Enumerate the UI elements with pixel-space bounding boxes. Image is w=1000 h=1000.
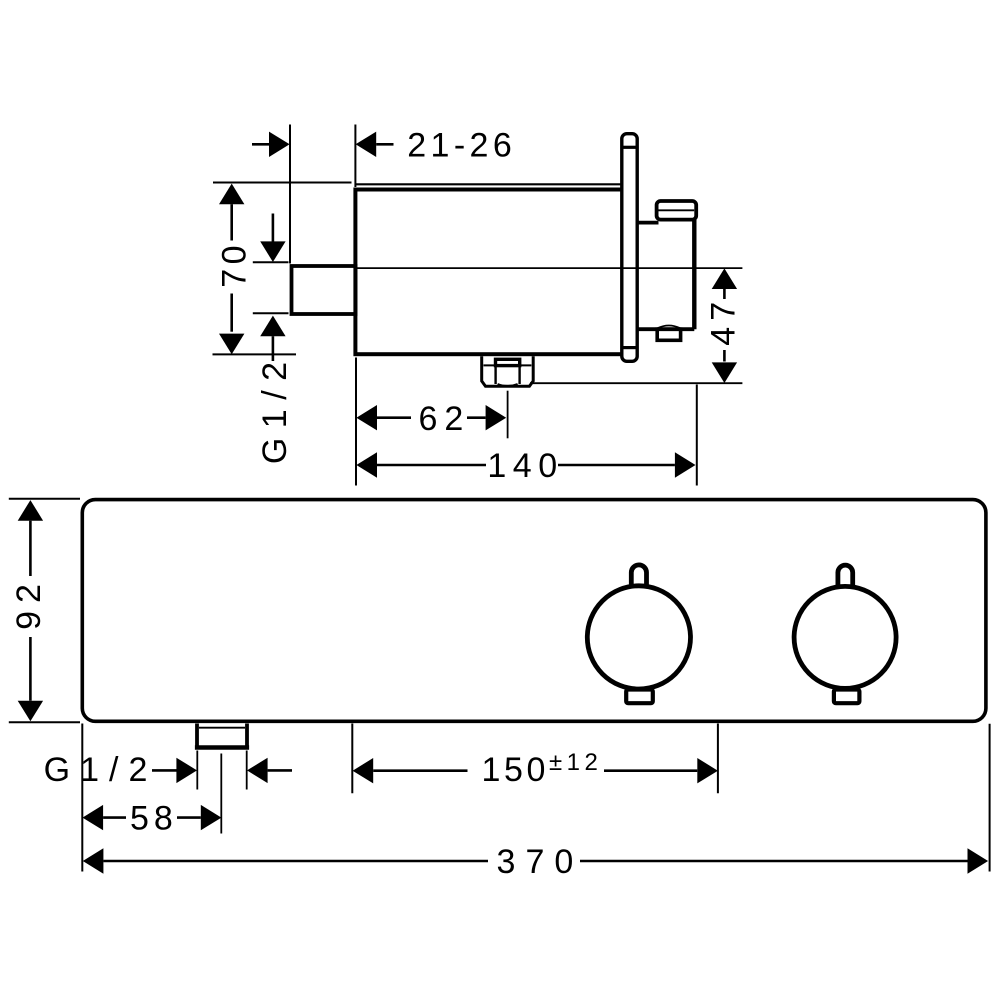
handle 2 circle [794,586,896,688]
nut chamfer line [484,364,532,366]
outlet union nut (side view) [482,356,534,386]
label 47 [704,296,742,346]
dimension 47 [712,268,737,383]
nut facet left [494,365,496,384]
body top double line [355,183,624,185]
handle 2 bottom tab [834,690,860,704]
dimension 62 [356,405,506,430]
label 70 [215,241,253,288]
dimension 150 extension right [717,724,719,794]
label 58 [130,800,178,838]
panel left extension line [81,724,83,872]
svg-text:62: 62 [418,400,470,438]
label 92 [10,576,48,630]
label 150 [482,751,550,789]
dimension 58 [83,805,222,830]
extension line bottom of body (70 bottom) [213,353,297,355]
svg-text:±12: ±12 [549,749,602,776]
dimension 370 [83,848,988,873]
front panel [82,500,986,722]
body-left extension line down [355,358,357,486]
extension line top of body (70 top) [213,182,352,184]
stub left extension line [196,751,198,790]
label G1/2 (front) [44,751,158,789]
wall plane extension line (21-26 left) [289,125,291,264]
body-face extension line (21-26 right) [354,125,356,188]
dimension G1/2 (side view) up arrow [260,316,285,361]
outlet stub front right edge [245,724,249,750]
extension line stub bottom [253,312,289,314]
extension line panel bottom left [9,721,80,723]
label 370 [497,843,584,881]
valve body (side view) [355,190,626,355]
stub centerline extension [220,754,222,834]
wall plate top bar [622,146,637,149]
label 21-26 [407,126,516,164]
svg-text:21-26: 21-26 [407,126,516,164]
panel right extension line [989,724,991,872]
dimension 92 [18,500,43,721]
label 62 [418,400,470,438]
outlet stub flange line [199,727,245,729]
label G1/2 (side view) [256,352,294,464]
knob bottom arc [658,326,681,329]
svg-text:47: 47 [704,296,742,346]
wall plate bottom bar [622,346,637,349]
svg-text:70: 70 [215,241,253,288]
nut pipe end [496,359,520,365]
svg-text:92: 92 [10,576,48,630]
nut bottom arc [498,384,518,386]
label plus-minus 12 [549,749,602,776]
knob grip tab [657,201,697,220]
outlet stub bottom bar [195,745,249,750]
dimension 70 [219,184,244,355]
nut facet right [518,365,520,384]
G1/2 front left-pointing arrow [247,758,292,783]
svg-text:150: 150 [482,751,550,789]
handle 1 top stem [631,565,646,588]
knob-right extension line down [696,385,698,486]
svg-text:G1/2: G1/2 [44,751,158,789]
handle 1 bottom tab [626,690,653,704]
47 top reference line [355,267,742,269]
outlet stub front left edge [195,724,199,750]
knob neck top line [637,221,659,225]
svg-text:G1/2: G1/2 [256,352,294,464]
dimension G1/2 (side view) down arrow [260,214,285,263]
knob bottom line [637,327,694,331]
stub right extension line [246,751,248,790]
dimension 150 [353,758,718,783]
extension line stub top [253,261,289,263]
svg-text:370: 370 [497,843,584,881]
knob bottom tab (side view) [657,329,680,340]
wall plate (side view) [622,134,637,362]
svg-text:58: 58 [130,800,178,838]
47 bottom reference line [530,382,742,384]
extension line panel top left [9,498,80,500]
svg-text:140: 140 [487,447,563,485]
dimension 140 [356,452,695,477]
label 140 [487,447,563,485]
supply connector stub (side view) [292,266,356,314]
G1/2 front right-pointing arrow [152,758,197,783]
knob right face [692,219,696,329]
dimension 150 extension left [351,724,353,794]
nut centerline extension [507,391,509,439]
dimension 21-26 right arrow [356,132,394,157]
handle 1 circle [587,586,690,689]
dimension 21-26 left arrow [252,132,290,157]
handle 2 top stem [838,565,853,588]
